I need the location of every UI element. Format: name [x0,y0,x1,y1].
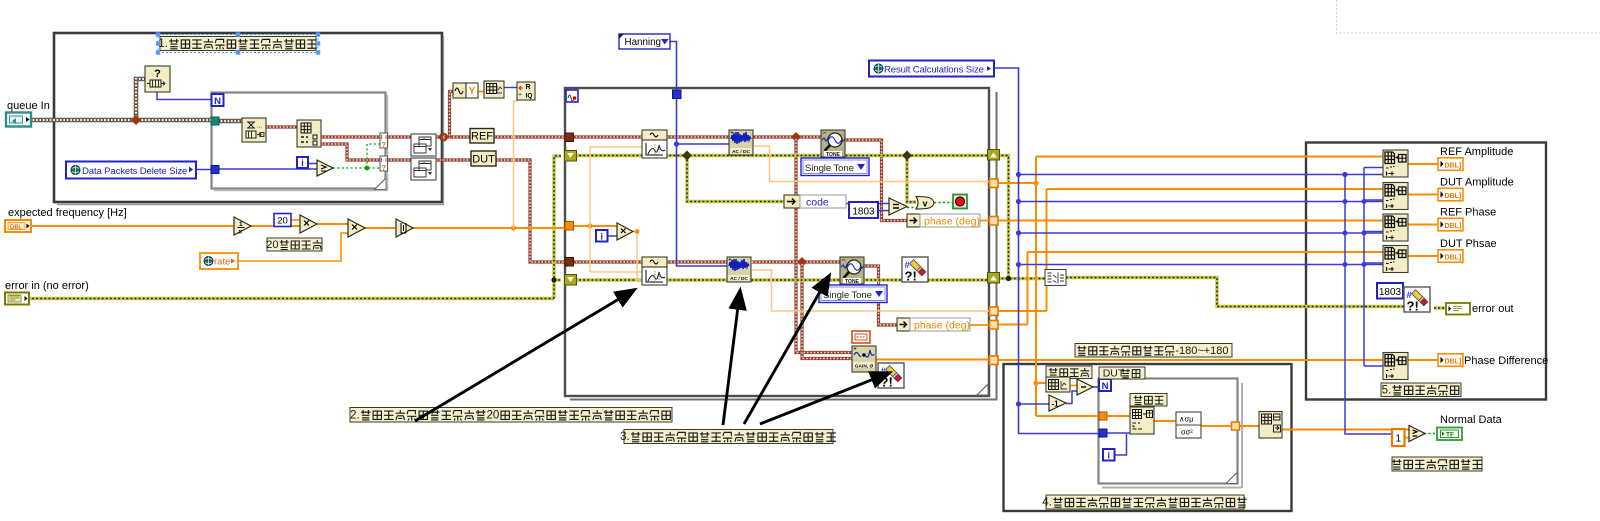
node queue status [145,66,170,92]
svg-text:DUT: DUT [1103,367,1125,379]
loop iterator i frame3 [596,230,608,242]
wire: DUT inside frame3 [569,260,642,263]
node or-gate v [916,197,934,210]
wire: mean to std [1154,420,1176,422]
svg-text:20: 20 [266,239,278,251]
node spectral measurement lower [642,257,667,267]
constant 20 [274,214,291,227]
svg-text:TF: TF [1446,432,1454,439]
wire: DUT stft to acdc [667,260,727,263]
constant mini display [852,331,870,343]
svg-text:Phase Difference: Phase Difference [1464,355,1548,367]
indicator REF Amplitude [1438,158,1463,171]
frame: section 1 box [54,33,442,202]
node equal [889,198,907,215]
wire: gain out to tunnel [876,359,990,361]
node index array 4 [1383,246,1408,273]
svg-text:1: 1 [239,221,243,228]
tunnel T4 out [990,321,999,330]
node transpose/merge [1045,270,1066,286]
wire: REF acdc to tone [752,135,821,138]
wire: error riser [554,156,561,299]
wire: rcs branch to -1 [1019,403,1050,405]
tunnel conditional B [380,156,388,171]
tunnel T3 out [990,307,999,316]
wire: riser V2 [1046,189,1048,311]
tunnel T2 out [990,217,999,226]
wire: idx5 to DBL5 [1408,359,1438,361]
wire: riser V1 [1035,157,1037,417]
wire: clear-errors to error out [1434,306,1447,309]
wire: i3 to mult3 [607,235,617,237]
wire: freq riser bottom stub [590,271,642,273]
shift register error left 1 [565,151,577,162]
svg-text:N: N [214,96,221,107]
wire: bus line REF phase [994,220,1383,222]
wire: DUT branch down to gain [802,264,852,359]
wire: blue into idx3 [1364,231,1383,233]
junction error upper 2 [902,151,912,161]
wire: hanning inside frame3 [677,96,728,266]
wire: merged error to clear-errors [1066,278,1404,307]
node index array 5 [1383,353,1408,380]
ring Single Tone lower [819,285,887,303]
node greater-or-equal [317,160,333,176]
loop count N [212,94,224,106]
node extract single tone upper [821,130,845,157]
wire: waveform Y to matrix [478,91,484,93]
indicator REF Phase [1438,218,1463,231]
label phase (deg) lower [910,318,970,331]
wire: bus line REF amplitude [1036,156,1383,158]
wire: DUT acdc to tone [752,260,840,263]
wire: blue into idx4 [1364,262,1383,264]
node reciprocal [234,217,251,235]
wire: tunnel to maxidx [1239,425,1259,427]
label phase (deg) upper [920,214,980,227]
label REF [470,129,494,144]
svg-text:DBL: DBL [10,225,22,231]
indicator stop LED [953,195,967,209]
svg-text:queue In: queue In [7,100,50,112]
svg-text:3.: 3. [620,431,630,443]
node AC/DC estimator upper [729,130,753,155]
node unbundle phase lower [897,318,910,331]
svg-text:i: i [1107,451,1110,461]
wire: array out A to tunnel [321,135,380,138]
wire: REF stft to acdc [667,135,729,138]
svg-text:Hanning: Hanning [625,37,662,48]
indicator Phase Difference [1438,354,1463,367]
wire: error upper row across frame3 [571,154,988,157]
arrow to tone [744,276,829,424]
wire: blue into idx1 [1364,167,1383,169]
label toolkit phase range [1075,344,1232,358]
node multiply 1 [300,215,317,233]
node array reshape 1 [411,134,436,156]
svg-text:i: i [301,158,304,168]
wire: idx4 to DBL4 [1408,255,1438,257]
label annotation 3 [624,430,833,444]
node multiply 2 [348,219,365,237]
control rate [200,253,238,269]
wire: phase upper to tunnel [920,220,990,222]
svg-text:GAIN, Ø: GAIN, Ø [855,363,874,369]
arrow to acdc [723,291,740,425]
svg-text:TONE: TONE [845,279,859,285]
label section 5 caption [1381,383,1461,397]
wire: queue into loop [219,119,244,124]
junction DUT spectrum [797,257,807,267]
svg-text:?: ? [382,140,387,149]
svg-text:error in (no error): error in (no error) [5,280,89,292]
node index array 1 [1383,150,1408,177]
wire: hanning branch to acdc upper [677,143,730,145]
wire: blue into idx2 [1364,199,1383,201]
wire: error SR right top to merge [998,156,1009,279]
wire: queue status to N [157,92,212,100]
node flush queue [242,118,266,142]
wire: recip to mult1 [251,225,300,227]
node unbundle code [784,195,800,208]
wire: slide nodes chain [1070,385,1077,387]
wire: -1 to minus [1066,391,1077,404]
frame: inner for-loop of section 1 [212,93,386,189]
svg-text:5.: 5. [1382,384,1392,396]
wire: mult2 to round [365,227,396,229]
constant 1 [1392,429,1405,446]
wire: round to frame3 [413,227,565,229]
wire: loop compare to tunnels [333,167,380,169]
svg-text:v: v [922,199,927,209]
svg-text:i: i [600,232,603,242]
node std dev mean [1176,412,1201,438]
junction hanning [674,141,679,146]
junction queue [131,115,141,125]
wire: bus line DUT phase [1028,251,1384,253]
svg-text:DUT: DUT [472,154,495,166]
junction mult3 [635,229,640,234]
node round to -inf [396,219,413,237]
wire: i to compare [308,163,317,165]
tunnel conditional A [380,133,388,148]
wire: normal compare to TF [1424,433,1437,435]
wire: error in long [28,297,554,300]
node index array loop1 [297,120,321,147]
wire: T4 to riser V3 [994,324,1028,326]
ring Single Tone upper [801,158,869,176]
wire: expected frequency [31,225,234,227]
label slide count [1046,366,1092,379]
svg-text:Result Calculations Size: Result Calculations Size [884,65,984,76]
svg-text:rate: rate [214,257,230,268]
wire: freq riser to stft upper [590,147,642,272]
svg-text:phase (deg): phase (deg) [924,216,980,228]
wire: REF inside frame3 [569,135,642,138]
wire: result calc size long [994,68,1099,434]
label DUT [471,151,496,166]
wire: V1 into loop tunnel [1036,415,1100,417]
wire: equal to orgate [907,207,916,209]
node array size (slide) [1046,377,1070,392]
node AC/DC estimator lower [727,257,751,282]
wire: delete size to loop [196,169,212,171]
indicator DUT Amplitude [1438,188,1463,201]
constant 1803 frame5 [1377,283,1403,299]
node resample RIQ [517,82,535,100]
constant 1803 upper [849,202,878,218]
tunnel loop2 right [1232,422,1240,430]
tunnel REF in [565,133,574,142]
wire: error branch lower row [554,278,561,281]
node multiply frame3 [617,223,633,240]
svg-text:Normal Data: Normal Data [1440,414,1503,426]
node extract single tone lower [840,257,864,284]
svg-text:code: code [806,197,829,209]
tunnel queue (auto-index) [211,117,219,125]
terminal queue In [6,113,31,127]
svg-text:∧σμ: ∧σμ [1179,415,1193,424]
node array reshape 2 [411,158,436,180]
label section 4 caption [1046,495,1244,509]
wire: blue bus 3 [1019,232,1384,234]
svg-text:Y: Y [469,86,476,97]
wire: blue drop to normal compare [1345,175,1392,435]
wire: REF branch down to gain [796,139,852,353]
shift register error right 2 [988,273,1000,284]
svg-text:REF Amplitude: REF Amplitude [1440,146,1513,158]
node index waveform array [484,81,504,98]
tunnel loop2 blue [1099,429,1107,437]
wire: bus line phase difference [994,359,1383,361]
shift register error right 1 [988,150,1000,161]
svg-text:REF Phase: REF Phase [1440,207,1496,219]
svg-text:-1: -1 [1051,400,1059,409]
wire: blue bus 2 [1019,201,1384,203]
svg-text:IQ: IQ [526,93,533,100]
junction error right [1006,276,1011,281]
svg-text:DBL]: DBL] [1445,162,1462,169]
svg-text:TONE: TONE [826,152,840,158]
frame: section 5 box [1306,143,1546,400]
constant Hanning ring [619,34,670,49]
svg-text:error out: error out [1472,303,1514,315]
wire: bus line DUT amplitude [1047,188,1384,190]
frame: section 4 box [1004,364,1292,511]
label section 1 title [160,37,316,51]
svg-text:phase (deg): phase (deg) [914,320,970,332]
label DUT reference [1099,367,1145,379]
arrow to gain [760,373,889,424]
svg-text:REF: REF [471,131,493,143]
svg-text:1803: 1803 [1379,287,1402,298]
wire: mult1 to mult2 [317,223,348,225]
wire: mult3 out down to stft lower [633,232,642,281]
wire: frame5 blue spine [1363,168,1365,367]
wire: REF tunnel to node [387,135,411,138]
wire: error dip to code [687,156,784,202]
wire: riser V3 [1027,252,1029,325]
indicator DUT Phsae [1438,250,1463,262]
wire: T1 to riser V1 [994,182,1036,184]
wire: loop tunnel to mean [1107,415,1130,417]
svg-text:DBL]: DBL] [1445,358,1462,365]
loop iterator i [297,157,308,168]
svg-text:expected frequency [Hz]: expected frequency [Hz] [8,207,127,219]
junction error [551,277,556,282]
wire: blue bus 1 [1019,174,1384,176]
node clear errors lower [878,363,904,388]
wire: DUT tunnel to node [387,158,411,161]
svg-text:N: N [1102,381,1109,392]
wire: green branch up [367,144,380,168]
tunnel delete-size [211,166,219,174]
wire [1337,0,1600,33]
svg-text:Single Tone: Single Tone [805,163,854,174]
wire: const1 to cmp [1404,437,1409,439]
wire: queue in main [31,118,212,123]
wire: orgate to stop led [934,202,953,204]
svg-text:1: 1 [1396,434,1402,445]
tunnel freq in [565,222,574,231]
wire: V1 into slide-count node [1036,382,1046,384]
label annotation 2 [350,408,672,423]
svg-text:?!: ?! [1407,299,1419,314]
wire: freq up to RIQ [514,101,519,228]
node clear errors upper [902,257,928,282]
label std-dev criterion [1392,457,1482,471]
wire: REF tone out to phase unbundle [845,140,908,221]
wire: error drop to or gate [907,156,916,203]
svg-text:Single Tone: Single Tone [823,290,872,301]
wire: maxidx out long [1282,429,1409,431]
frame: inner for-loop of section 4 [1099,379,1238,484]
wire: acdc upper amplitude out [752,146,990,182]
node array subset (slide block) [1130,407,1154,434]
frame: big middle structure (section 2/3 loop) [565,88,989,396]
wire: REF out to frame3 [436,135,564,138]
constant -1 gain [1049,395,1066,411]
node subtract [1077,379,1093,395]
svg-text:÷: ÷ [518,92,522,99]
control Data Packets Delete Size [66,162,196,179]
wire: idx3 to DBL3 [1408,224,1438,226]
svg-text:4.: 4. [1042,497,1052,509]
svg-text:?: ? [154,68,161,80]
wire: blue into idx5 [1364,365,1383,367]
junction freq [511,225,516,230]
tunnel hanning top [673,90,682,99]
svg-text:σσ²: σσ² [1181,428,1193,437]
node spectral measurement upper [642,130,667,140]
node less-or-equal normal data [1409,426,1425,442]
node clear errors frame5 [1404,287,1430,312]
node search max index [1259,412,1282,439]
svg-text:20: 20 [487,409,500,421]
wire: const20 to mult1 [291,219,300,221]
wire: DUT tone out to phase unbundle [864,266,897,325]
tunnel DUT in [565,258,574,267]
tunnel T5 out [990,356,999,365]
label 20 cycles [267,238,322,251]
node index array 2 [1383,183,1408,210]
wire: array out B to tunnel [321,144,380,160]
svg-text:20: 20 [277,216,288,227]
loop2 count N [1099,379,1111,391]
indicator error out [1446,303,1470,315]
wire: loop tunnel to compare [219,168,317,170]
junction V1b [1033,380,1038,385]
wire: hanning down [670,42,677,91]
wire: T3 to riser V2 [994,310,1047,312]
node unbundle phase upper [907,214,920,227]
wire: 1803 to clear errors (frame5) [1402,290,1407,292]
wire: code to equal [846,203,889,205]
wire: minus to N [1093,386,1099,388]
wire: freq inside frame3 [569,225,617,227]
wire: const1803 to equal [878,210,889,212]
wire: error lower row across frame3 [571,278,988,281]
wire: error SR right bottom to merge [998,277,1046,280]
junction freq2 [587,223,592,228]
wire: acdc lower amplitude out [752,270,990,311]
svg-text:AC / DC: AC / DC [732,149,750,155]
svg-text:AC / DC: AC / DC [730,276,748,282]
svg-text:DUT Amplitude: DUT Amplitude [1440,177,1514,189]
junction REF at frame edge [440,134,447,141]
wire: matrix to RIQ [504,87,517,89]
wire: blue bus 4 [1019,264,1384,266]
loop2 iterator i [1103,449,1115,461]
svg-text:DBL]: DBL] [1445,223,1462,230]
svg-text:-180~+180: -180~+180 [1175,345,1228,357]
wire: dequeue to array node [266,125,297,128]
junction error upper 1 [682,151,692,161]
label code [800,195,846,208]
wire: loop blue tunnel to mean [1107,432,1130,434]
node index array 3 [1383,214,1408,241]
svg-text:...: ... [257,124,262,130]
svg-text:Data Packets Delete Size: Data Packets Delete Size [82,166,187,177]
svg-text:1803: 1803 [852,207,875,218]
arrow to stft [415,290,634,421]
wire: queue branch up to status [136,79,145,122]
label slide block [1130,394,1167,407]
node get waveform Y [453,83,466,98]
junction green [365,166,370,171]
tunnel loop2 orange [1099,412,1107,420]
svg-text:x: x [239,229,243,236]
tunnel T1 out [990,179,999,188]
control Result Calculations Size [869,61,994,77]
junction REF spectrum [791,132,801,142]
wire: i4 up to mean [1114,434,1127,455]
svg-text:?: ? [382,163,387,172]
shift register error left 2 [565,275,577,286]
svg-text:?!: ?! [905,269,917,284]
wire: idx1 to DBL1 [1408,163,1438,165]
wire: rate to mult2 [238,233,348,261]
svg-text:R: R [525,84,530,91]
junction V1a [1033,180,1038,185]
frame3 corner glyph [566,90,578,102]
svg-text:DUT Phsae: DUT Phsae [1440,238,1497,250]
svg-text:DBL]: DBL] [1445,193,1462,200]
wire: std to tunnel [1201,425,1231,427]
wire: idx2 to DBL2 [1408,194,1438,196]
wire: REF branch up to waveform node [450,92,454,140]
node gain-phase [852,346,876,372]
